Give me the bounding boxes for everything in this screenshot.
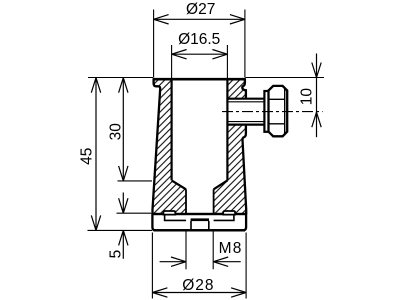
- dim 5 upper arrow: [119, 193, 128, 214]
- dim Ø16.5 line: [172, 53, 228, 55]
- base bottom edge: [154, 229, 246, 231]
- top extension line for 10: [246, 77, 325, 79]
- bore right wall: [226, 79, 228, 180]
- bolt washer flange: [264, 91, 268, 132]
- svg-text:Ø27: Ø27: [186, 1, 215, 18]
- dim Ø27 arrows: [154, 15, 245, 24]
- svg-text:10: 10: [299, 88, 316, 106]
- top face: [153, 78, 246, 81]
- left ring bump: [163, 211, 175, 215]
- svg-text:Ø16.5: Ø16.5: [178, 31, 220, 48]
- bore left wall: [171, 79, 173, 180]
- thread end dark band: [191, 218, 209, 221]
- dim Ø16.5 extension lines: [172, 45, 228, 78]
- dim 45 arrows: [91, 78, 100, 231]
- dim 10 arrows: [312, 63, 321, 128]
- svg-text:45: 45: [79, 148, 96, 165]
- top extension line for 45/30: [88, 77, 153, 79]
- dim Ø16.5 arrows: [172, 50, 228, 59]
- dim 30 line: [122, 78, 124, 181]
- dim Ø28 line: [152, 292, 246, 294]
- dim 5 extension lines: [88, 213, 153, 230]
- bore floor funnel: [172, 180, 228, 189]
- dim M8 extension lines: [186, 232, 213, 270]
- svg-text:5: 5: [107, 250, 124, 259]
- dim Ø27 line: [154, 18, 245, 20]
- dim 30 extension line: [118, 180, 153, 182]
- base plate: [152, 214, 246, 230]
- body outline: right outer profile with boss: [242, 79, 246, 99]
- dim M8 arrows: [160, 257, 241, 266]
- right wall section lower (hatched): [214, 125, 247, 215]
- bolt hex head: [269, 86, 288, 136]
- dim Ø28 extension lines: [152, 233, 246, 299]
- dim 5 lower arrow: [119, 230, 128, 258]
- bolt M8 side: shaft: [227, 99, 263, 125]
- svg-text:M8: M8: [219, 240, 243, 257]
- body outline: left outer profile: [153, 79, 161, 214]
- dim 10 line: [316, 54, 318, 138]
- svg-text:30: 30: [107, 123, 124, 141]
- right wall section upper (hatched): [227, 79, 246, 99]
- hex head facet lines: [284, 88, 286, 135]
- bolt centerline: [222, 111, 323, 113]
- svg-text:Ø28: Ø28: [182, 277, 214, 294]
- right ring bump: [223, 211, 235, 215]
- dim 45 line: [95, 78, 97, 231]
- M8 tapped hole walls: [186, 189, 214, 231]
- dim Ø28 arrows: [152, 288, 246, 297]
- dim Ø27 extension lines: [154, 10, 245, 78]
- base recess lines: [165, 215, 234, 221]
- bolt thread lines: [227, 102, 263, 122]
- pilot hole: [191, 221, 209, 229]
- base top face: [152, 213, 246, 215]
- dim 30 arrows: [119, 78, 128, 181]
- left wall section (hatched): [152, 79, 186, 214]
